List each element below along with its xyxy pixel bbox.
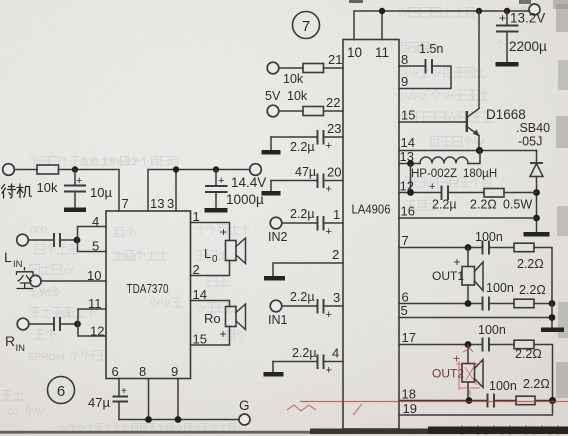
- svg-text:100n: 100n: [486, 281, 514, 295]
- svg-text:2.2µ: 2.2µ: [290, 290, 315, 304]
- speaker Ro: [204, 304, 246, 330]
- right page-edge scan artifacts (decorative): [556, 4, 568, 32]
- wire pin 9: [177, 379, 179, 420]
- node pin 12: [407, 189, 414, 196]
- svg-text:2.2µ: 2.2µ: [290, 207, 315, 221]
- node standby/10u junction: [72, 166, 78, 172]
- resistor 2.2ohm (pin7): [514, 243, 544, 271]
- resistor 10k (pin22): [280, 89, 344, 116]
- wire pin 17: [399, 344, 483, 346]
- node pin6/OUT1: [465, 300, 472, 307]
- terminal 待机 (standby input): [2, 164, 32, 198]
- bottom scan bars (decorative): [0, 431, 320, 434]
- svg-text:8: 8: [139, 364, 146, 379]
- svg-text:+: +: [326, 226, 332, 238]
- svg-text:17: 17: [402, 330, 416, 345]
- svg-text:10: 10: [87, 268, 101, 283]
- wire: [29, 239, 54, 241]
- wire zobel to pin6 rail: [534, 248, 552, 304]
- svg-text:+: +: [454, 255, 461, 269]
- svg-text:IN: IN: [16, 343, 26, 354]
- capacitor 2.2u (pin 3): [283, 290, 344, 321]
- svg-text:1000µ: 1000µ: [226, 192, 264, 207]
- wire pin 8: [399, 65, 426, 67]
- wire pin 10: [42, 280, 106, 282]
- capacitor 2200u: [496, 11, 547, 62]
- svg-text:0.5W: 0.5W: [503, 198, 532, 212]
- capacitor 2.2u (pin 4): [273, 346, 343, 377]
- svg-text:D1668: D1668: [486, 107, 526, 122]
- wire pin 8: [148, 379, 150, 420]
- terminal mute (pin 21 input): [267, 62, 279, 74]
- capacitor 10u: [64, 170, 112, 208]
- svg-text:+: +: [429, 181, 435, 193]
- capacitor 2.2u (pin12): [429, 181, 457, 212]
- capacitor 100n (pin18): [488, 379, 517, 408]
- resistor 10k (standby): [37, 165, 59, 195]
- svg-text:100n: 100n: [478, 323, 506, 337]
- ground (10u): [64, 208, 86, 213]
- wire pin 2 from speaker Lo: [191, 261, 230, 276]
- wire: [30, 323, 54, 325]
- ground (pin23 cap): [262, 137, 281, 155]
- svg-text:14: 14: [193, 287, 207, 302]
- svg-text:OUT1: OUT1: [432, 269, 464, 283]
- svg-text:6: 6: [57, 383, 65, 400]
- svg-text:1: 1: [193, 209, 200, 224]
- node pin 9 junction: [175, 416, 182, 423]
- svg-text:/8XL TBWE2: /8XL TBWE2: [80, 157, 138, 168]
- svg-text:10: 10: [347, 45, 362, 60]
- node pin17/OUT2: [465, 341, 472, 348]
- svg-text:IN2: IN2: [268, 230, 288, 244]
- wire Vcc rail pins 13,3 to 14.4V: [148, 170, 249, 212]
- terminal IN2: [268, 217, 288, 244]
- wire pins 10,11 to +13.2V rail: [354, 11, 529, 40]
- svg-text:1: 1: [333, 207, 340, 222]
- terminal L IN: [4, 234, 28, 270]
- svg-text:HP-002Z: HP-002Z: [411, 168, 457, 180]
- svg-text:8: 8: [401, 52, 408, 67]
- svg-text:+: +: [220, 225, 227, 239]
- svg-text:+: +: [220, 327, 227, 341]
- node diode / 2.2ohm: [533, 189, 540, 196]
- svg-text:+: +: [326, 365, 332, 377]
- node emitter/pin14/inductor: [476, 147, 483, 154]
- resistor 2.2ohm 0.5W: [470, 189, 532, 212]
- wire: [489, 344, 514, 346]
- svg-text:7: 7: [402, 233, 409, 248]
- svg-text:9: 9: [171, 364, 178, 379]
- svg-text:+: +: [76, 175, 82, 187]
- wire: [15, 169, 37, 171]
- svg-text:2.2Ω: 2.2Ω: [517, 257, 544, 271]
- transistor Q1 D1668: [467, 11, 526, 150]
- svg-text:20: 20: [327, 165, 341, 180]
- capacitor 1.5n: [419, 42, 443, 74]
- node 2200u: [504, 8, 510, 14]
- wire pin 14 / emitter node to diode: [399, 150, 537, 152]
- svg-text:2MHz: 2MHz: [398, 91, 427, 103]
- wire pin 2 to ground: [273, 263, 343, 276]
- svg-text:2.2µ: 2.2µ: [292, 346, 317, 360]
- wire: [60, 323, 75, 325]
- svg-text:9: 9: [401, 74, 408, 89]
- svg-text:0: 0: [212, 254, 218, 265]
- wire: [448, 192, 484, 194]
- node pins 11/12 tie: [74, 321, 81, 328]
- resistor 10k (pin21): [283, 64, 324, 87]
- svg-text:16: 16: [401, 204, 415, 219]
- wire pin 19: [399, 401, 553, 416]
- svg-text:13: 13: [150, 196, 164, 211]
- svg-text:IN: IN: [13, 259, 23, 270]
- ground (pin4 cap): [264, 362, 284, 377]
- capacitor R-in coupling: [54, 317, 60, 331]
- capacitor 47u (pin 20): [271, 165, 343, 196]
- node pin13/12 tie: [407, 160, 414, 167]
- red tick marks bottom right (decorative): [462, 425, 558, 435]
- svg-text:2.2Ω: 2.2Ω: [519, 283, 546, 297]
- section marker circle 6: [48, 377, 75, 404]
- svg-text:+: +: [499, 11, 506, 25]
- svg-text:+: +: [326, 309, 332, 321]
- diode D1 SB40-05J: [516, 121, 550, 232]
- svg-text:2.2Ω: 2.2Ω: [470, 198, 497, 212]
- svg-text:+: +: [326, 184, 332, 196]
- svg-text:+: +: [326, 140, 332, 152]
- svg-text:2: 2: [193, 262, 200, 277]
- capacitor 100n (pin6): [483, 281, 514, 311]
- svg-text:(Bia1): (Bia1): [55, 309, 79, 319]
- wire: [535, 400, 553, 402]
- svg-text:10µ: 10µ: [90, 185, 112, 200]
- speaker OUT1: [432, 248, 483, 304]
- terminal 14.4V supply: [231, 164, 266, 190]
- ground (pin5): [541, 328, 564, 333]
- svg-text:47µ: 47µ: [88, 395, 110, 410]
- wire: [534, 303, 552, 305]
- capacitor 2.2u (pin 23): [271, 130, 343, 154]
- node pin6 zobel: [549, 300, 556, 307]
- svg-text:000.: 000.: [30, 225, 49, 236]
- wire pin 18: [399, 400, 488, 402]
- svg-text:2200µ: 2200µ: [509, 39, 547, 54]
- ground (pin2): [264, 276, 285, 281]
- wire: [489, 247, 514, 249]
- op-amp U2 LA4906: [343, 40, 399, 430]
- svg-text:14.4V: 14.4V: [231, 175, 266, 190]
- svg-text:+: +: [121, 386, 127, 397]
- node pin 18 right: [549, 397, 556, 404]
- svg-text:Ro: Ro: [204, 311, 221, 326]
- svg-text:19: 19: [403, 401, 417, 416]
- svg-text:+: +: [218, 175, 224, 187]
- wire pin 1 to speaker Lo: [191, 223, 230, 241]
- wire standby rail to pin 7: [59, 170, 120, 212]
- svg-text:2.2µ: 2.2µ: [290, 140, 315, 154]
- ground (pin20 cap): [262, 181, 281, 196]
- svg-text:IN1: IN1: [268, 313, 288, 327]
- svg-text:15: 15: [401, 108, 415, 123]
- wire pin 13: [399, 163, 420, 165]
- svg-text:F1G: F1G: [40, 288, 60, 299]
- resistor 2.2ohm (pin18): [516, 377, 550, 405]
- svg-text:2: 2: [332, 247, 339, 262]
- ground (2200u): [496, 62, 519, 67]
- wire pin 5 to ground: [399, 304, 552, 328]
- section marker circle 7: [293, 12, 320, 39]
- resistor 2.2ohm (pin6): [514, 283, 546, 308]
- terminal IN1: [268, 300, 288, 327]
- svg-text:100n: 100n: [489, 379, 517, 393]
- svg-text:1.5n: 1.5n: [419, 42, 443, 56]
- resistor 2.2ohm (pin17): [514, 340, 542, 361]
- wire: [324, 67, 344, 69]
- terminal 5V (pin 22 input): [265, 89, 281, 117]
- red line along pin 18 net (decorative): [300, 401, 568, 403]
- svg-text:L: L: [204, 246, 211, 261]
- node pins 4/5 tie: [74, 237, 81, 244]
- red pen marks over OUT2 (decorative): [456, 345, 480, 396]
- svg-text:10k: 10k: [37, 180, 58, 195]
- svg-text:47µ: 47µ: [295, 165, 316, 179]
- svg-text:5: 5: [401, 303, 408, 318]
- svg-text:7: 7: [302, 18, 310, 35]
- wire pin 6: [399, 303, 483, 305]
- wire pin 15 to base: [399, 121, 467, 123]
- svg-text:L: L: [4, 249, 12, 265]
- capacitor 2.2u (pin 1): [283, 207, 344, 238]
- svg-text:6: 6: [112, 364, 119, 379]
- svg-text:10k: 10k: [283, 72, 304, 86]
- svg-text:DJ: DJ: [8, 407, 19, 417]
- svg-text:14: 14: [401, 135, 415, 150]
- capacitor 47u (pin 6): [88, 379, 128, 420]
- wire: [60, 239, 74, 241]
- wire: [504, 192, 537, 194]
- svg-text:4: 4: [92, 214, 99, 229]
- terminal +13.2V: [499, 4, 545, 26]
- svg-text:4: 4: [332, 346, 339, 361]
- wire pin 15 from speaker Ro: [191, 327, 230, 346]
- svg-text:-05J: -05J: [518, 135, 542, 149]
- wire: [489, 303, 514, 305]
- svg-text:LA4906: LA4906: [352, 203, 391, 217]
- svg-text:23: 23: [327, 121, 341, 136]
- wire bracket pins 11,12: [78, 309, 106, 336]
- svg-text:15: 15: [193, 332, 207, 347]
- svg-text:2.2Ω: 2.2Ω: [515, 347, 542, 361]
- node pin18/OUT2: [466, 397, 473, 404]
- svg-text:180µH: 180µH: [463, 168, 497, 180]
- svg-text:TDA7370: TDA7370: [127, 282, 169, 296]
- svg-text:13.2V: 13.2V: [510, 11, 545, 26]
- svg-text:11: 11: [375, 45, 389, 60]
- svg-text:2.2µ: 2.2µ: [432, 198, 457, 212]
- node pin 11: [379, 8, 385, 14]
- svg-text:5V: 5V: [265, 89, 281, 103]
- capacitor 1000u: [205, 170, 264, 209]
- svg-text:EPROM: EPROM: [28, 352, 65, 363]
- svg-text:.SB40: .SB40: [516, 121, 550, 135]
- node collector riser: [476, 8, 482, 14]
- svg-text:7: 7: [122, 196, 129, 211]
- svg-text:5: 5: [92, 239, 99, 254]
- svg-text:12: 12: [90, 324, 104, 339]
- svg-text:3: 3: [167, 196, 174, 211]
- wire pin 7: [399, 247, 483, 249]
- node above pin 3: [173, 166, 179, 172]
- node pin 8 junction: [145, 416, 152, 423]
- node 1000u junction: [213, 166, 219, 172]
- inductor L1 HP-002Z 180uH: [411, 151, 497, 181]
- capacitor 100n (pin7): [475, 230, 503, 255]
- terminal 空 (unused): [17, 268, 42, 289]
- ground (1000u): [205, 208, 228, 213]
- speaker Lo: [204, 238, 246, 265]
- svg-text:G: G: [239, 398, 250, 413]
- svg-text:22: 22: [326, 95, 340, 110]
- wire pin 12: [399, 192, 442, 194]
- node pin 5: [549, 314, 556, 321]
- capacitor L-in coupling: [54, 233, 60, 247]
- wire: [494, 400, 516, 402]
- speaker OUT2: [432, 345, 483, 401]
- svg-text:2.2Ω: 2.2Ω: [523, 377, 550, 391]
- wire bracket pins 4,5: [78, 227, 107, 252]
- svg-text:R: R: [5, 333, 15, 349]
- wire tie 13-12: [410, 164, 412, 193]
- capacitor 100n (pin17): [478, 323, 506, 352]
- terminal G (ground): [239, 398, 250, 425]
- wire zobel to pin18 rail: [534, 345, 553, 401]
- svg-text:3: 3: [333, 290, 340, 305]
- node pin7/OUT1: [465, 244, 472, 251]
- svg-text:21: 21: [328, 52, 342, 67]
- svg-text:10k: 10k: [287, 89, 308, 103]
- wire pin 16 to ground node: [399, 217, 537, 219]
- svg-text:11: 11: [88, 296, 102, 311]
- ground (diode leg): [524, 232, 550, 237]
- svg-text:100n: 100n: [475, 230, 503, 244]
- op-amp U1 TDA7370: [106, 211, 191, 379]
- svg-text:18: 18: [402, 387, 416, 402]
- wire pin 8/9 feedback loop: [399, 66, 451, 89]
- wire bottom ground rail: [119, 419, 239, 421]
- node pin 16: [533, 215, 540, 222]
- wire pin 14 to speaker Ro: [191, 301, 230, 307]
- wire: [280, 67, 304, 69]
- terminal R IN: [5, 318, 29, 354]
- svg-text:(Tbd: (Tbd: [118, 252, 137, 262]
